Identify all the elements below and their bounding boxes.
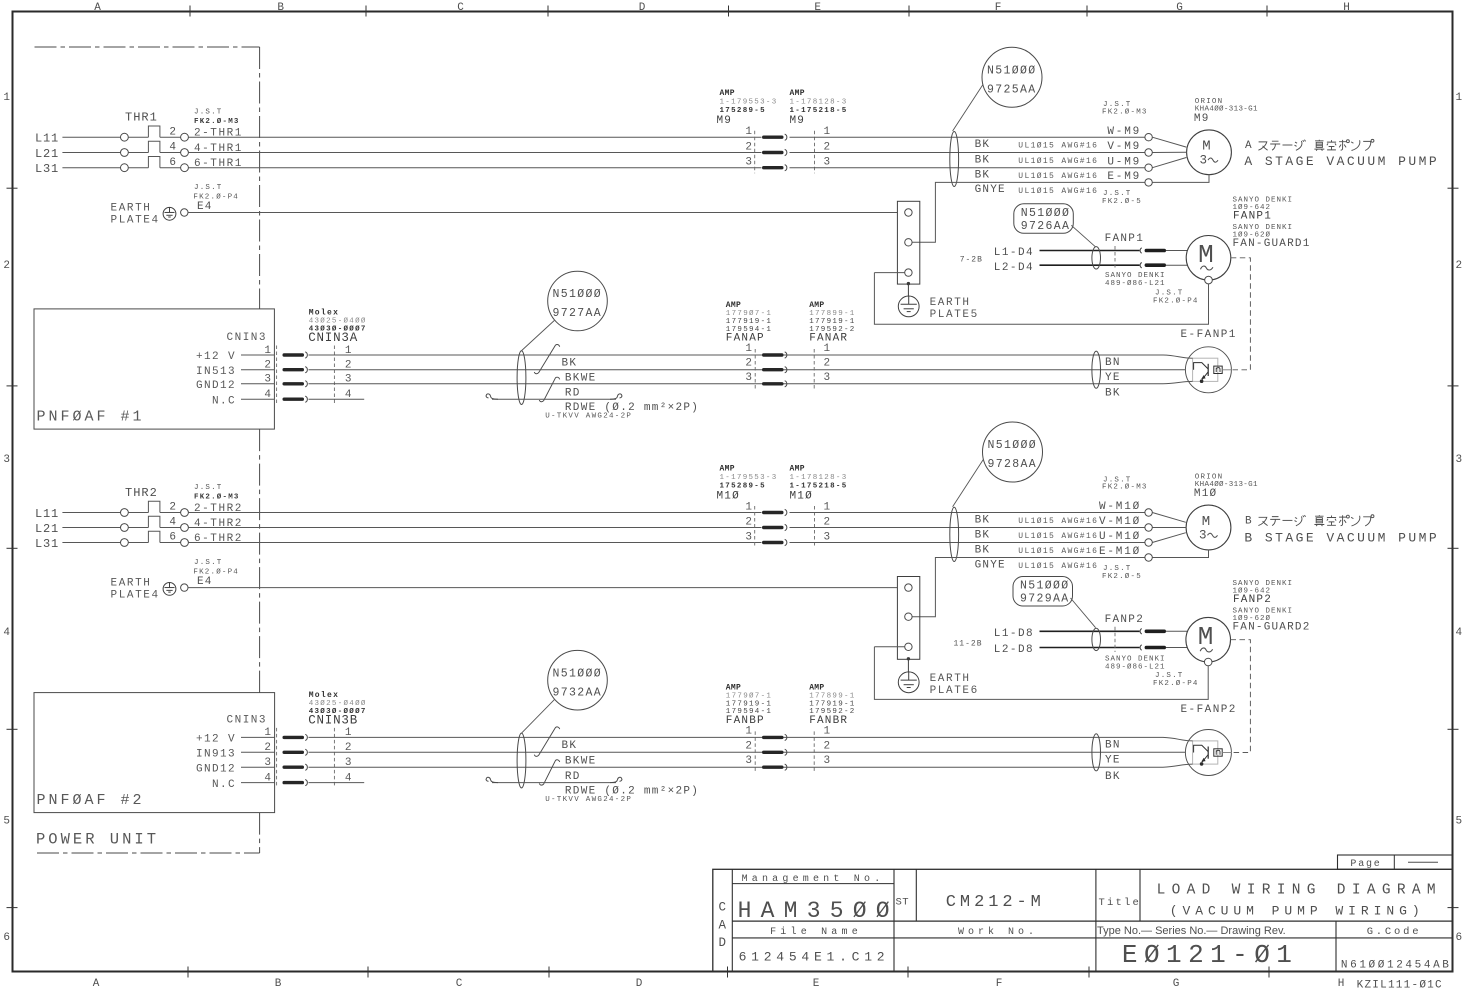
svg-text:6-THR2: 6-THR2: [194, 533, 243, 545]
svg-text:N51ØØØ: N51ØØØ: [988, 439, 1038, 452]
svg-text:1-179553-3: 1-179553-3: [720, 474, 778, 482]
svg-text:EARTH: EARTH: [111, 578, 152, 590]
wire L2-D4: [1040, 264, 1140, 266]
leader from balloon 9727AA: [522, 321, 555, 351]
svg-text:4: 4: [169, 142, 176, 154]
connector M1Ø mating dashes: [754, 506, 756, 548]
svg-text:E: E: [813, 978, 820, 990]
svg-text:9727AA: 9727AA: [553, 307, 603, 320]
svg-text:L21: L21: [35, 522, 59, 536]
svg-text:3: 3: [824, 755, 831, 767]
junction dot at strip bottom: [907, 282, 910, 285]
svg-text:E-M9: E-M9: [1107, 171, 1141, 183]
svg-text:Management No.: Management No.: [742, 874, 885, 885]
svg-text:2: 2: [745, 517, 752, 529]
connector M1Ø crimp terminals: [762, 511, 784, 514]
photo transistor symbol: [1194, 745, 1209, 752]
connector CNIN3B crimp terminals: [283, 736, 305, 739]
svg-text:6-THR1: 6-THR1: [194, 158, 243, 170]
svg-text:2: 2: [745, 740, 752, 752]
svg-text:YE: YE: [1105, 755, 1121, 767]
connector FANAP mating dashes: [754, 349, 756, 390]
svg-text:J.S.T: J.S.T: [194, 109, 223, 117]
svg-text:GNYE: GNYE: [975, 559, 1006, 571]
svg-text:L1-D8: L1-D8: [994, 628, 1034, 640]
wire E-M9 to motor frame: [1152, 175, 1209, 183]
svg-text:J.S.T: J.S.T: [1103, 190, 1132, 198]
sensor output pad (n): [1214, 749, 1222, 756]
svg-text:489-Ø86-L21: 489-Ø86-L21: [1105, 663, 1166, 672]
svg-text:UL1Ø15 AWG#16: UL1Ø15 AWG#16: [1018, 532, 1098, 541]
svg-text:KZIL111-Ø1C: KZIL111-Ø1C: [1357, 980, 1442, 992]
svg-text:H: H: [1343, 2, 1350, 14]
svg-text:L11: L11: [35, 507, 59, 521]
wire CNIN3 pin1 (+12V) to fan sensor: [309, 736, 1136, 738]
svg-text:BN: BN: [1105, 739, 1121, 751]
svg-text:L2-D4: L2-D4: [994, 262, 1034, 274]
leader from balloon 9732AA: [522, 700, 555, 733]
svg-text:9728AA: 9728AA: [988, 458, 1038, 471]
svg-text:C: C: [456, 978, 463, 990]
svg-text:2: 2: [745, 142, 752, 154]
svg-text:CNIN3A: CNIN3A: [308, 331, 358, 345]
svg-text:43Ø25-Ø4ØØ: 43Ø25-Ø4ØØ: [309, 317, 367, 326]
power unit boundary (dash-dot): [35, 46, 260, 48]
motor M9 (3-phase vacuum pump motor): [1187, 130, 1232, 175]
wire E-M1Ø to motor frame: [1152, 550, 1208, 558]
svg-text:1: 1: [3, 92, 10, 104]
CNIN3 pin stub wires: [241, 354, 274, 356]
svg-text:AMP: AMP: [809, 684, 824, 693]
svg-text:U-TKVV AWG24-2P: U-TKVV AWG24-2P: [545, 796, 632, 804]
frame row ticks: [7, 187, 18, 189]
terminal strip (earth, section 1): [897, 201, 919, 284]
wire CNIN3 pin4 (N.C stub): [309, 398, 365, 400]
svg-text:BKWE: BKWE: [565, 373, 597, 385]
svg-text:W-M1Ø: W-M1Ø: [1099, 501, 1141, 513]
svg-text:177919-1: 177919-1: [809, 318, 855, 326]
svg-text:3: 3: [1200, 153, 1208, 167]
cable bundle marker (motor leads, section 1): [950, 132, 959, 187]
svg-text:UL1Ø15 AWG#16: UL1Ø15 AWG#16: [1018, 187, 1098, 196]
svg-text:FANP1: FANP1: [1105, 233, 1145, 245]
svg-text:1: 1: [824, 725, 831, 737]
svg-text:N51ØØØ: N51ØØØ: [553, 288, 603, 301]
svg-text:PLATE5: PLATE5: [930, 309, 979, 321]
wire CNIN3 pin2 to fan sensor: [309, 751, 1193, 753]
svg-text:177919-1: 177919-1: [726, 700, 772, 708]
svg-text:M1Ø: M1Ø: [790, 490, 813, 502]
svg-text:FK2.Ø-M3: FK2.Ø-M3: [194, 493, 240, 502]
svg-text:1-179553-3: 1-179553-3: [720, 99, 778, 107]
svg-text:11-2B: 11-2B: [954, 640, 983, 649]
fan connector mating dashes: [1114, 627, 1116, 652]
svg-text:GND12: GND12: [196, 380, 236, 392]
terminal strip (earth, section 2): [897, 577, 919, 660]
svg-text:3: 3: [824, 157, 831, 169]
power unit module PNF0AF #2: [34, 693, 275, 813]
connector CNIN3B mating dashes: [276, 728, 278, 788]
connector M9 mating dashes: [754, 131, 756, 174]
svg-text:2: 2: [1456, 260, 1463, 272]
fan motor FANP1: [1186, 235, 1231, 280]
svg-text:BK: BK: [975, 544, 991, 556]
svg-text:FAN-GUARD1: FAN-GUARD1: [1233, 238, 1311, 250]
svg-text:Page: Page: [1350, 859, 1381, 870]
svg-text:L11: L11: [35, 132, 59, 146]
svg-text:1: 1: [745, 725, 752, 737]
wire L1-D4: [1040, 250, 1140, 252]
svg-text:2: 2: [169, 502, 176, 514]
svg-text:Molex: Molex: [309, 691, 340, 700]
svg-text:FANP2: FANP2: [1105, 614, 1145, 626]
svg-text:BN: BN: [1105, 357, 1121, 369]
earth plate4 symbol (section 2): [163, 583, 176, 596]
svg-text:N51ØØØ: N51ØØØ: [553, 667, 603, 680]
svg-text:2: 2: [824, 517, 831, 529]
svg-text:A: A: [1245, 140, 1252, 152]
cable bundle marker (CNIN3 harness, section 1): [517, 351, 526, 405]
svg-text:177899-1: 177899-1: [809, 693, 855, 701]
svg-text:AMP: AMP: [790, 465, 805, 474]
svg-text:E4: E4: [197, 576, 213, 588]
wire CNIN3 pin1 (+12V) to fan sensor: [309, 354, 1136, 356]
svg-text:B: B: [275, 978, 282, 990]
svg-text:L21: L21: [35, 147, 59, 161]
frame column ticks (bottom): [187, 967, 189, 978]
svg-text:IN913: IN913: [196, 749, 236, 761]
svg-text:9725AA: 9725AA: [987, 84, 1037, 97]
svg-text:D: D: [719, 936, 727, 950]
svg-text:SANYO DENKI: SANYO DENKI: [1105, 656, 1166, 664]
wires W/V/U to motor M1Ø: [1152, 513, 1186, 523]
svg-text:43Ø25-Ø4ØØ: 43Ø25-Ø4ØØ: [309, 699, 367, 708]
svg-text:J.S.T: J.S.T: [194, 559, 223, 567]
svg-text:J.S.T: J.S.T: [1155, 290, 1184, 298]
svg-text:1779Ø7-1: 1779Ø7-1: [726, 692, 772, 701]
svg-text:FAN-GUARD2: FAN-GUARD2: [1233, 621, 1311, 633]
svg-text:M: M: [1198, 622, 1214, 652]
fan connector crimp terminals: [1140, 629, 1142, 634]
wire L11 (section 2): [62, 512, 120, 514]
cable bundle marker (sensor leads, section 2): [1092, 734, 1101, 771]
svg-text:M1Ø: M1Ø: [1194, 488, 1217, 500]
title block: [713, 869, 1453, 971]
svg-text:M: M: [1202, 514, 1210, 530]
cable bundle marker (CNIN3 harness, section 2): [517, 733, 526, 788]
svg-text:C: C: [719, 901, 727, 915]
connector pins to motor M1Ø: [1145, 509, 1152, 516]
dashed link fan guard to sensor (section 1): [1231, 258, 1251, 370]
svg-text:BK: BK: [975, 154, 991, 166]
svg-text:6: 6: [169, 157, 176, 169]
svg-text:V-M9: V-M9: [1107, 141, 1141, 153]
svg-text:Work No.: Work No.: [958, 926, 1038, 938]
svg-text:M: M: [1202, 139, 1210, 155]
svg-text:1779Ø7-1: 1779Ø7-1: [726, 309, 772, 318]
fan motor FANP2: [1186, 617, 1231, 662]
balloon N51000 9729AA: [1013, 577, 1073, 607]
svg-text:EARTH: EARTH: [111, 203, 152, 215]
wire E4 (to terminal strip, section 2): [188, 587, 897, 589]
earth plate4 symbol (section 1): [163, 207, 176, 220]
svg-text:L1-D4: L1-D4: [994, 247, 1034, 259]
svg-text:177919-1: 177919-1: [809, 700, 855, 708]
rotation sensor (photo transistor) of FANP2: [1185, 730, 1231, 776]
svg-text:D: D: [639, 2, 646, 14]
svg-text:UL1Ø15 AWG#16: UL1Ø15 AWG#16: [1018, 142, 1098, 151]
svg-text:2: 2: [745, 358, 752, 370]
svg-text:B STAGE VACUUM PUMP: B STAGE VACUUM PUMP: [1244, 530, 1439, 545]
earth symbol PLATE5: [907, 284, 909, 305]
svg-text:RD: RD: [565, 771, 581, 783]
svg-text:ST: ST: [896, 897, 910, 909]
cable bundle marker (sensor leads, section 1): [1092, 351, 1101, 388]
svg-text:BK: BK: [562, 740, 578, 752]
svg-text:FK2.Ø-P4: FK2.Ø-P4: [1153, 296, 1199, 305]
svg-text:E-M1Ø: E-M1Ø: [1099, 546, 1141, 558]
svg-text:1: 1: [824, 126, 831, 138]
svg-text:1: 1: [745, 126, 752, 138]
svg-text:SANYO DENKI: SANYO DENKI: [1105, 272, 1166, 280]
svg-text:YE: YE: [1105, 372, 1121, 384]
svg-text:2: 2: [824, 740, 831, 752]
svg-text:4: 4: [169, 517, 176, 529]
svg-text:9729AA: 9729AA: [1020, 593, 1070, 606]
svg-text:E-FANP2: E-FANP2: [1181, 704, 1237, 716]
svg-text:2: 2: [169, 126, 176, 138]
terminal at fan motor bottom (E-FANP1): [1205, 276, 1213, 284]
svg-text:GNYE: GNYE: [975, 184, 1006, 196]
svg-text:A: A: [94, 2, 101, 14]
svg-text:AMP: AMP: [809, 301, 824, 310]
svg-text:5: 5: [3, 816, 10, 828]
svg-text:4-THR1: 4-THR1: [194, 143, 243, 155]
connector FANBP mating dashes: [754, 731, 756, 773]
balloon N51000 9732AA: [548, 650, 608, 710]
svg-text:GND12: GND12: [196, 763, 236, 775]
svg-text:THR1: THR1: [125, 111, 158, 125]
svg-text:J.S.T: J.S.T: [1155, 672, 1184, 680]
svg-text:W-M9: W-M9: [1107, 126, 1141, 138]
svg-text:E-FANP1: E-FANP1: [1181, 329, 1237, 341]
svg-text:FK2.Ø-M3: FK2.Ø-M3: [194, 117, 240, 126]
svg-text:UL1Ø15 AWG#16: UL1Ø15 AWG#16: [1018, 172, 1098, 181]
svg-text:+12 V: +12 V: [196, 734, 236, 746]
svg-text:L31: L31: [35, 162, 59, 176]
wire L31 (section 2): [62, 542, 120, 544]
svg-text:CNIN3B: CNIN3B: [308, 714, 358, 728]
svg-text:FANP2: FANP2: [1233, 594, 1272, 606]
junction dot at strip bottom: [907, 657, 910, 660]
svg-text:1-178128-3: 1-178128-3: [790, 99, 848, 107]
leader from balloon 9726AA: [1071, 225, 1095, 247]
svg-text:5: 5: [1456, 816, 1463, 828]
svg-text:THR2: THR2: [125, 486, 158, 500]
svg-text:2: 2: [824, 358, 831, 370]
leader from balloon 9728AA to cable: [953, 460, 984, 507]
wires W/V/U to motor M9: [1152, 137, 1186, 147]
leader from balloon 9729AA: [1071, 598, 1096, 628]
wires M1Ø phases through connector: [790, 512, 1145, 514]
svg-text:V-M1Ø: V-M1Ø: [1099, 516, 1141, 528]
svg-text:N51ØØØ: N51ØØØ: [987, 65, 1037, 78]
svg-text:177899-1: 177899-1: [809, 310, 855, 318]
svg-text:BKWE: BKWE: [565, 755, 597, 767]
svg-text:File Name: File Name: [770, 926, 862, 938]
svg-text:BK: BK: [562, 358, 578, 370]
svg-text:PNFØAF #1: PNFØAF #1: [37, 409, 145, 426]
svg-text:D: D: [636, 978, 643, 990]
svg-text:F: F: [996, 978, 1003, 990]
svg-text:3: 3: [824, 532, 831, 544]
svg-text:L2-D8: L2-D8: [994, 644, 1034, 656]
wire CNIN3 pin3 to fan sensor: [309, 383, 1136, 385]
svg-text:G: G: [1176, 2, 1183, 14]
svg-text:BK: BK: [975, 170, 991, 182]
earth symbol PLATE6: [907, 659, 909, 680]
connector pins to motor M9: [1145, 134, 1152, 141]
svg-text:AMP: AMP: [726, 301, 741, 310]
svg-text:FK2.Ø-5: FK2.Ø-5: [1102, 197, 1142, 206]
svg-text:PNFØAF #2: PNFØAF #2: [37, 792, 145, 809]
balloon N51000 9728AA: [983, 422, 1043, 482]
svg-text:FK2.Ø-M3: FK2.Ø-M3: [1102, 107, 1148, 116]
svg-text:PLATE6: PLATE6: [930, 685, 979, 697]
twisted pair splice marks: [534, 344, 559, 373]
connector M9 crimp terminals: [762, 136, 784, 139]
fan connector mating dashes: [1114, 246, 1116, 270]
svg-text:U-TKVV AWG24-2P: U-TKVV AWG24-2P: [545, 413, 632, 421]
svg-text:FANP1: FANP1: [1233, 210, 1272, 222]
svg-text:1: 1: [824, 502, 831, 514]
svg-text:3: 3: [1199, 529, 1207, 543]
svg-text:RD: RD: [565, 387, 581, 399]
svg-text:3: 3: [3, 454, 10, 466]
svg-text:1: 1: [745, 343, 752, 355]
svg-text:2: 2: [3, 260, 10, 272]
svg-text:Title: Title: [1099, 897, 1142, 909]
svg-text:U-M1Ø: U-M1Ø: [1099, 531, 1141, 543]
svg-text:N.C: N.C: [212, 395, 236, 407]
svg-text:L31: L31: [35, 537, 59, 551]
svg-text:7-2B: 7-2B: [960, 256, 983, 265]
svg-text:4: 4: [1456, 627, 1463, 639]
svg-text:A: A: [719, 919, 727, 933]
svg-text:E: E: [814, 2, 821, 14]
svg-text:G: G: [1173, 978, 1180, 990]
dashed link fan guard to sensor (section 2): [1231, 640, 1251, 753]
svg-text:M1Ø: M1Ø: [717, 490, 740, 502]
connector FANAP crimp terminals: [762, 353, 784, 356]
svg-text:G.Code: G.Code: [1367, 926, 1422, 938]
svg-text:FK2.Ø-5: FK2.Ø-5: [1102, 572, 1142, 581]
wire L31 (section 1): [62, 167, 120, 169]
svg-text:CNIN3: CNIN3: [227, 714, 268, 726]
svg-text:4-THR2: 4-THR2: [194, 518, 243, 530]
svg-text:EARTH: EARTH: [930, 673, 971, 685]
svg-text:M9: M9: [717, 115, 733, 127]
wire L11 (section 1): [62, 136, 120, 138]
wire E4 (to terminal strip, section 1): [188, 212, 897, 214]
svg-text:Type No.— Series No.— Drawing: Type No.— Series No.— Drawing Rev.: [1097, 925, 1286, 937]
svg-text:M9: M9: [1194, 113, 1210, 125]
svg-text:3: 3: [1456, 454, 1463, 466]
svg-text:UL1Ø15 AWG#16: UL1Ø15 AWG#16: [1018, 547, 1098, 556]
svg-text:E4: E4: [197, 201, 213, 213]
svg-text:3: 3: [824, 372, 831, 384]
twisted pair splice marks: [534, 727, 559, 756]
svg-text:UL1Ø15 AWG#16: UL1Ø15 AWG#16: [1018, 157, 1098, 166]
svg-text:M: M: [1198, 240, 1214, 270]
svg-text:B: B: [277, 2, 284, 14]
svg-text:A: A: [93, 978, 100, 990]
leader from balloon 9725AA to cable: [953, 85, 983, 131]
connector FANBP crimp terminals: [762, 736, 784, 739]
photo transistor symbol: [1194, 363, 1209, 370]
svg-text:+12 V: +12 V: [196, 351, 236, 363]
svg-text:U-M9: U-M9: [1107, 156, 1141, 168]
svg-text:C: C: [457, 2, 464, 14]
wire L1-D8: [1040, 630, 1140, 632]
svg-text:N51ØØØ: N51ØØØ: [1020, 580, 1070, 593]
terminal at fan motor bottom (E-FANP2): [1204, 658, 1212, 666]
svg-text:6: 6: [1456, 932, 1463, 944]
svg-text:6: 6: [169, 532, 176, 544]
svg-text:AMP: AMP: [720, 465, 735, 474]
svg-text:2: 2: [824, 142, 831, 154]
svg-text:PLATE4: PLATE4: [111, 214, 160, 226]
svg-text:CM212-M: CM212-M: [946, 893, 1041, 912]
svg-text:1: 1: [824, 343, 831, 355]
svg-text:J.S.T: J.S.T: [194, 484, 223, 492]
cable bundle marker (fan leads, section 2): [1092, 628, 1101, 650]
svg-text:UL1Ø15 AWG#16: UL1Ø15 AWG#16: [1018, 562, 1098, 571]
svg-text:J.S.T: J.S.T: [1103, 565, 1132, 573]
svg-text:AMP: AMP: [790, 89, 805, 98]
svg-text:2-THR2: 2-THR2: [194, 503, 243, 515]
wire GNYE earth lead (section 2): [912, 558, 1145, 617]
rotation sensor (photo transistor) of FANP1: [1185, 347, 1231, 393]
svg-text:F: F: [995, 2, 1002, 14]
thermal relay THR2 heater elements: [148, 501, 160, 512]
wire GNYE earth lead (section 1): [912, 182, 1145, 242]
svg-text:N.C: N.C: [212, 779, 236, 791]
svg-text:Molex: Molex: [309, 309, 340, 318]
svg-text:CNIN3: CNIN3: [227, 332, 268, 344]
svg-text:AMP: AMP: [726, 684, 741, 693]
svg-text:9726AA: 9726AA: [1021, 220, 1071, 233]
svg-text:M9: M9: [790, 115, 806, 127]
svg-text:1-178128-3: 1-178128-3: [790, 474, 848, 482]
svg-text:3: 3: [745, 532, 752, 544]
svg-text:BK: BK: [1105, 771, 1121, 783]
svg-text:A STAGE VACUUM PUMP: A STAGE VACUUM PUMP: [1244, 154, 1439, 169]
svg-text:EARTH: EARTH: [930, 297, 971, 309]
wire L21 (section 2): [62, 527, 120, 529]
svg-text:FK2.Ø-M3: FK2.Ø-M3: [1102, 483, 1148, 492]
wire RDWE loop-back segment: [492, 398, 616, 400]
wire E-FANP2 (earth return): [874, 646, 904, 648]
svg-text:BK: BK: [1105, 387, 1121, 399]
thermal relay THR1 heater elements: [148, 126, 160, 137]
svg-text:3: 3: [745, 372, 752, 384]
page box: [1338, 855, 1453, 869]
svg-text:UL1Ø15 AWG#16: UL1Ø15 AWG#16: [1018, 517, 1098, 526]
svg-text:177919-1: 177919-1: [726, 318, 772, 326]
wire RDWE loop-back segment: [492, 782, 616, 784]
svg-text:1: 1: [745, 502, 752, 514]
